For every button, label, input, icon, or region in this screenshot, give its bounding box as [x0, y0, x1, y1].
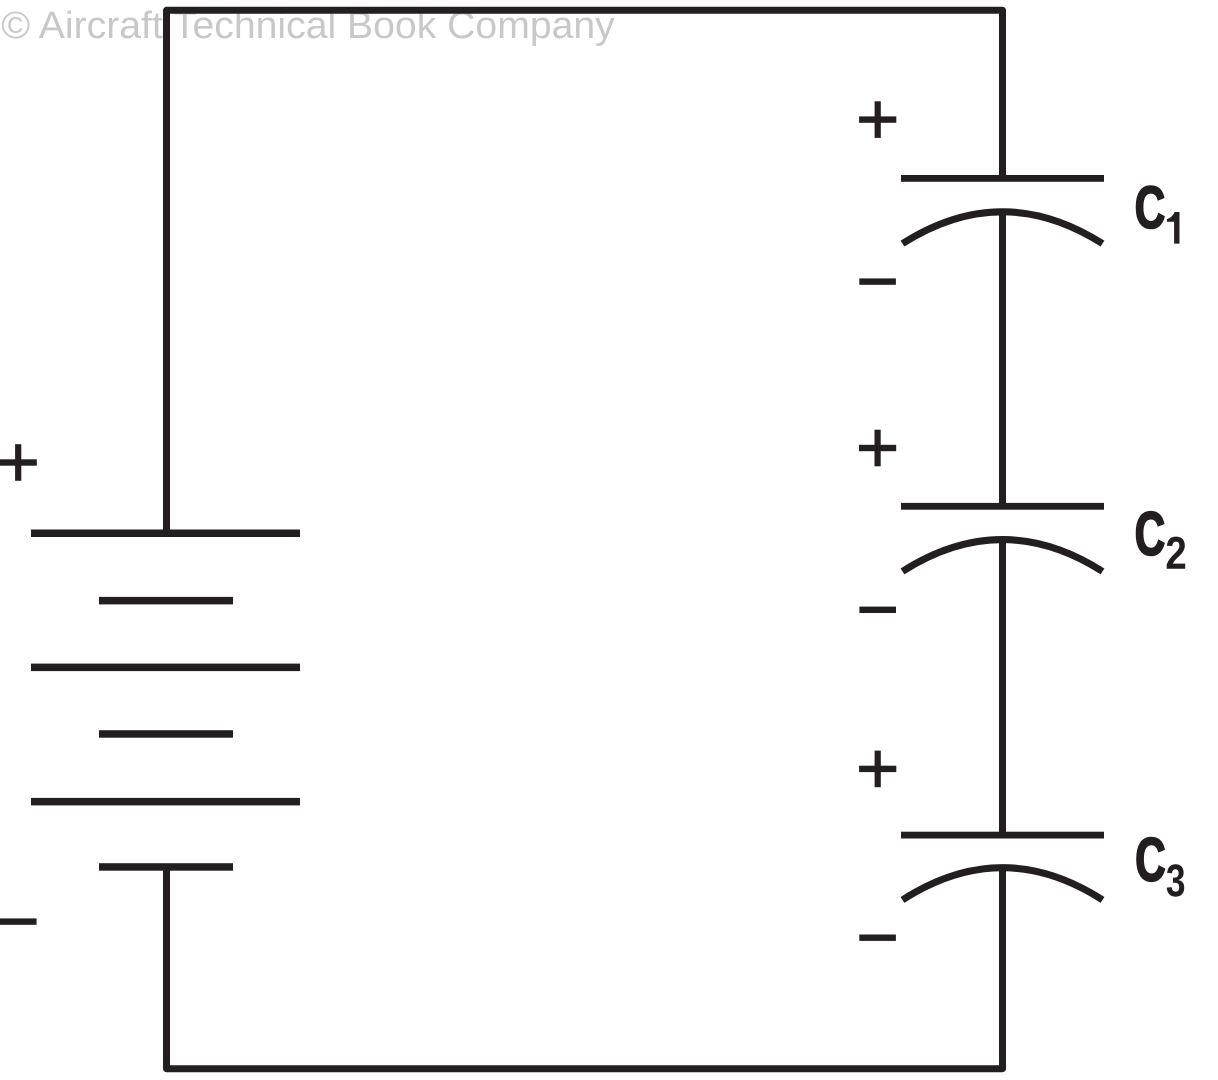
battery: short plate 2: [99, 730, 233, 738]
C1 + polarity mark: [859, 101, 896, 138]
capacitor C2 flat plate (+): [901, 503, 1104, 510]
battery − polarity mark: [0, 918, 37, 924]
battery + polarity mark: [0, 444, 37, 481]
capacitor C3 curved plate (−): [903, 868, 1103, 900]
battery: long plate 2: [31, 664, 300, 672]
label C1: [1137, 186, 1180, 244]
C3 − polarity mark: [859, 935, 896, 941]
label C2: [1137, 512, 1186, 569]
battery: short plate 1: [99, 597, 233, 605]
wire: C1 to C2: [999, 212, 1006, 506]
C2 − polarity mark: [859, 607, 896, 613]
wire: C2 to C3: [999, 540, 1006, 835]
battery: long plate 1 (+): [31, 530, 300, 538]
label C3: [1137, 838, 1184, 897]
battery: short plate 3 (−): [99, 863, 233, 871]
capacitor C2 curved plate (−): [903, 540, 1103, 572]
capacitor C3 flat plate (+): [901, 832, 1104, 839]
battery: long plate 3: [31, 798, 300, 806]
capacitor C1 curved plate (−): [903, 212, 1103, 244]
capacitor C1 flat plate (+): [901, 175, 1104, 182]
C2 + polarity mark: [859, 430, 896, 467]
C1 − polarity mark: [859, 278, 896, 284]
wire: battery + terminal up, across top, down to C1 top plate: [167, 10, 1003, 533]
wire: battery − terminal down, across bottom, up to C3 curved plate: [167, 866, 1003, 1069]
C3 + polarity mark: [859, 751, 896, 788]
